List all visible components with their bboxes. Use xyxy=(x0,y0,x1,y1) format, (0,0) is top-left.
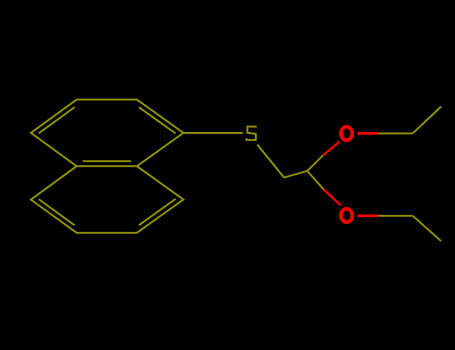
CH-O top bond olive half xyxy=(307,156,323,172)
aromatic inner line upper-right xyxy=(139,107,176,133)
O top to CH2 red half xyxy=(358,132,379,135)
aromatic inner line lower-right xyxy=(139,199,176,225)
S-CH2 bond xyxy=(257,145,284,178)
O top to CH2 olive half xyxy=(378,132,413,134)
top ethyl CH2-CH3 bond xyxy=(413,107,442,134)
naphthalene upper ring outline xyxy=(31,100,184,167)
atom label S xyxy=(246,127,256,140)
O bottom to CH2 olive half xyxy=(378,215,413,217)
naphthalene lower ring outline xyxy=(31,166,184,233)
aromatic inner line upper-left xyxy=(39,107,75,133)
atom label O top xyxy=(341,127,352,140)
CH-O bottom bond olive half xyxy=(307,171,324,189)
CH-O bottom bond red half xyxy=(324,189,341,205)
bottom ethyl CH2-CH3 bond xyxy=(413,216,442,241)
atom label O bottom xyxy=(341,209,352,222)
O bottom to CH2 red half xyxy=(358,214,379,217)
CH2-CH bond xyxy=(284,171,307,178)
bond ring to S xyxy=(183,132,243,134)
aromatic inner line lower-left xyxy=(39,199,75,225)
aromatic inner line shared edge xyxy=(83,160,131,162)
CH-O top bond red half xyxy=(323,142,340,156)
